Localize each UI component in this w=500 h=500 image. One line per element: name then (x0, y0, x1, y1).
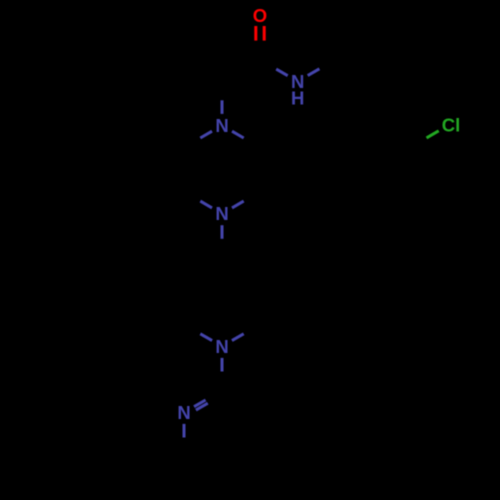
bond N2-C3 methyl (308, 69, 320, 76)
svg-text:N: N (215, 203, 228, 224)
pyridine double bond C17=N18 (194, 400, 208, 410)
svg-text:N: N (215, 115, 228, 136)
svg-text:N: N (215, 336, 228, 357)
carbonyl double bond C1=O (256, 26, 264, 41)
bond Cl-C23 (427, 131, 439, 138)
svg-text:Cl: Cl (442, 115, 461, 136)
piperazine bond C7-N8 (232, 201, 244, 208)
svg-text:O: O (253, 5, 267, 26)
amide bond C1-N2 (276, 69, 288, 76)
svg-text:N: N (177, 402, 190, 423)
piperidine bond C13-N14 (232, 334, 244, 341)
piperidine bond N14-C15 (200, 334, 212, 341)
piperazine bond N5-C6 (232, 131, 244, 138)
bond C4-N5 (221, 100, 224, 114)
piperazine bond N8-C9 (200, 201, 212, 208)
bond N8-C11 (221, 225, 224, 239)
svg-text:H: H (291, 88, 304, 109)
pyridine bond N18-C19 (183, 424, 186, 438)
bond N14-C17 (221, 358, 224, 372)
piperazine bond C10-N5 (200, 131, 212, 138)
